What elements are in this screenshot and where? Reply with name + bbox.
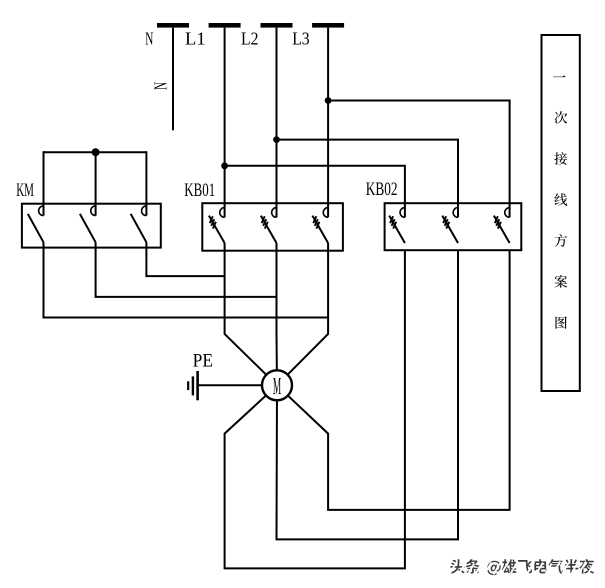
node L3 junction xyxy=(325,97,332,104)
KB02 contact 1 xyxy=(400,208,405,218)
wire motor to KB02 contact 2 (V2) xyxy=(277,250,459,539)
wire motor to KB02 contact 3 (W2) xyxy=(277,250,510,510)
wire KM contact 3 to motor lead U xyxy=(146,242,224,276)
svg-text:M: M xyxy=(273,373,281,399)
title text 一次接线方案图 xyxy=(553,75,567,328)
wire L1 vertical xyxy=(224,28,226,218)
terminal bar L2 xyxy=(261,23,293,28)
wire motor to KB02 contact 1 (U2) xyxy=(225,250,405,568)
KB02 contact 2 xyxy=(453,208,458,218)
wire KB01 contact 3 to motor (W1) xyxy=(277,243,328,385)
KM contact 3 xyxy=(142,206,147,216)
node L2 junction xyxy=(273,136,280,143)
watermark 头条@雄飞电气半夜 xyxy=(450,559,594,575)
wire KM top bus xyxy=(44,151,147,153)
wire L3 to KB02 contact 3 xyxy=(328,101,510,218)
wire KM contact 2 to motor lead V xyxy=(96,242,277,297)
svg-text:L3: L3 xyxy=(292,29,309,49)
terminal bar L1 xyxy=(209,23,241,28)
KB02 contact 3 xyxy=(505,208,510,218)
svg-text:KM: KM xyxy=(16,180,34,201)
wire KB01 contact 2 to motor (V1) xyxy=(276,243,279,385)
wire KB01 contact 1 to motor (U1) xyxy=(225,243,277,385)
node L1 junction xyxy=(221,162,228,169)
KB01 contact 3 xyxy=(323,208,328,218)
wire KM contact 1 feed xyxy=(43,151,45,215)
svg-text:KB02: KB02 xyxy=(366,177,398,199)
svg-text:KB01: KB01 xyxy=(184,180,215,201)
svg-text:L1: L1 xyxy=(185,29,206,48)
svg-text:N: N xyxy=(145,30,153,49)
svg-text:L2: L2 xyxy=(241,29,258,49)
title box frame xyxy=(542,35,580,391)
motor M1 circle xyxy=(262,370,292,400)
KB01 contact 1 xyxy=(220,208,225,218)
wire KM contact 1 to motor lead W xyxy=(44,242,329,317)
wire KM contact 2 feed xyxy=(95,152,97,215)
ground wire PE xyxy=(198,384,262,386)
wire L2 to KB02 contact 2 xyxy=(277,140,459,218)
wire KM contact 3 feed xyxy=(145,151,147,215)
KB01 contact 2 xyxy=(272,208,277,218)
KM contact 1 xyxy=(39,206,44,216)
wire L2 vertical xyxy=(276,28,278,218)
contactor KM box xyxy=(22,204,161,248)
node KM bus junction xyxy=(92,148,100,156)
wire L1 to KB02 contact 1 xyxy=(225,166,405,218)
terminal bar N xyxy=(157,23,189,28)
breaker KB02 box xyxy=(385,203,522,250)
KM contact 2 xyxy=(91,206,96,216)
breaker KB01 box xyxy=(202,203,343,251)
svg-text:N: N xyxy=(152,82,171,90)
terminal bar L3 xyxy=(312,23,344,28)
wire L3 vertical xyxy=(327,28,329,218)
svg-text:PE: PE xyxy=(193,350,213,371)
wire N vertical xyxy=(172,28,174,131)
ground symbol xyxy=(188,371,197,400)
